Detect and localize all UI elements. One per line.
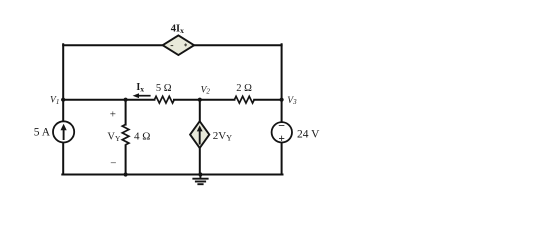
svg-text:+: + [278,133,285,145]
dependent source 4Ix polarity marks [171,44,187,47]
svg-text:+: + [110,109,116,121]
wire right vertical upper [281,44,283,122]
wire left vertical lower [62,143,64,175]
wire top right segment [194,44,282,46]
wire middle V1 to 5ohm [62,99,154,101]
svg-text:−: − [110,158,116,170]
svg-text:5 Ω: 5 Ω [156,83,172,94]
wire middle 5ohm to 2ohm [174,99,234,101]
wire 2Vy branch lower [199,146,201,175]
resistor 5 ohm [154,96,174,103]
junction dot 4ohm top [124,98,128,102]
wire middle 2ohm to V3 [254,99,281,101]
voltage source 24V circle [272,122,292,142]
junction dot ground [198,172,202,176]
resistor 2 ohm [234,96,254,103]
current source 5A arrow [60,124,66,140]
wire top left segment [63,44,163,46]
dependent current source 2Vy arrow [197,125,203,144]
wire left vertical upper [62,44,64,121]
ground [192,175,208,185]
svg-text:V2: V2 [201,85,211,95]
wire right vertical lower [281,142,283,174]
current source 5A circle [53,121,74,142]
svg-text:V1: V1 [50,96,59,106]
svg-text:4 Ω: 4 Ω [134,131,150,143]
svg-text:24 V: 24 V [297,129,320,141]
wire 4ohm branch upper [125,100,127,125]
dependent current source 2Vy diamond [190,121,209,148]
svg-text:VY: VY [107,132,121,143]
svg-text:Ix: Ix [136,82,144,93]
svg-text:5 A: 5 A [34,127,51,139]
wire 2Vy branch upper [199,100,201,123]
junction dot 4ohm bottom [124,172,128,176]
wire 4ohm branch lower [125,145,127,174]
svg-text:2VY: 2VY [213,130,232,142]
node V1 junction dot [61,98,65,102]
dependent voltage source 4Ix diamond [163,35,194,55]
node V3 junction dot [280,98,284,102]
resistor 4 ohm [122,124,129,144]
current arrow Ix [133,93,151,98]
node V2 junction dot [198,98,202,102]
svg-text:4Ix: 4Ix [171,24,184,35]
wire bottom [62,174,282,176]
svg-text:V3: V3 [287,96,297,106]
svg-text:−: − [278,119,285,133]
svg-text:2 Ω: 2 Ω [236,83,252,94]
